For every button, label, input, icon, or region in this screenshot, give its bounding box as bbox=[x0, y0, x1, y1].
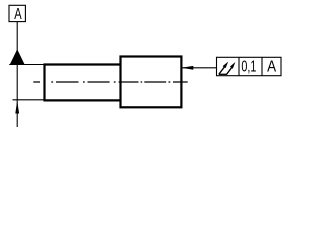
svg-text:A: A bbox=[267, 58, 277, 75]
leader arrowhead (pointing left at shaft surface) bbox=[181, 66, 193, 70]
dimension arrowhead (pointing up) bbox=[15, 101, 19, 114]
frame divider 1 bbox=[238, 57, 240, 75]
extension line of upper surface (triangle seat) bbox=[9, 64, 45, 66]
svg-text:A: A bbox=[14, 6, 22, 23]
leader line to feature control frame bbox=[183, 67, 217, 69]
shaft large cylinder outline bbox=[121, 57, 182, 108]
frame divider 2 bbox=[261, 57, 263, 75]
centerline (dash-dot axis) bbox=[33, 81, 187, 83]
svg-text:0,1: 0,1 bbox=[241, 58, 256, 75]
extension line of lower surface bbox=[13, 99, 45, 101]
dimension line (vertical, through datum) bbox=[16, 65, 18, 128]
datum feature triangle (filled) bbox=[10, 49, 25, 64]
datum leader line (box to triangle) bbox=[16, 22, 18, 51]
total runout symbol bbox=[219, 62, 236, 75]
datum label box A bbox=[9, 5, 25, 23]
shaft small cylinder outline bbox=[45, 65, 121, 101]
feature control frame outer box bbox=[217, 57, 282, 75]
